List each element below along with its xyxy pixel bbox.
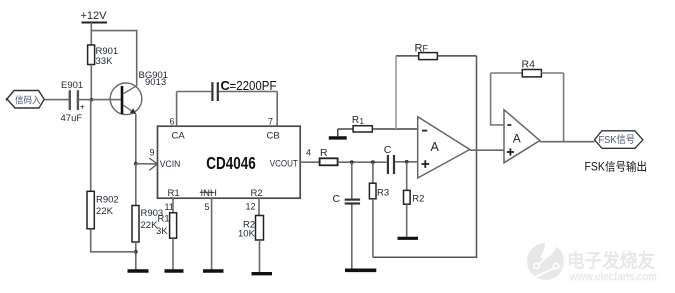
wire op2 output	[540, 141, 595, 143]
wire VCOUT pin4	[300, 161, 319, 163]
svg-text:CB: CB	[267, 131, 280, 142]
ground INH	[203, 269, 224, 272]
node R2 bias	[405, 160, 409, 164]
wire op1 output	[470, 149, 504, 151]
svg-text:R1: R1	[168, 188, 180, 199]
node base	[90, 98, 94, 102]
wire emitter to R903	[135, 164, 137, 206]
wire R4 left to inverting input	[491, 73, 504, 125]
power +12V	[81, 10, 108, 23]
svg-text:12: 12	[246, 201, 256, 211]
wire emitter down	[135, 114, 137, 164]
resistor R1 input	[338, 115, 418, 132]
svg-text:4: 4	[306, 148, 311, 158]
ground R2	[252, 272, 273, 275]
wire R2 bias to ground	[406, 204, 408, 237]
svg-text:R902: R902	[96, 195, 119, 206]
resistor RF	[396, 42, 477, 59]
ground emitter	[128, 269, 149, 273]
ground R1	[165, 269, 184, 272]
svg-text:R2: R2	[412, 193, 424, 204]
wire +12V to R901	[90, 23, 92, 46]
ground shunt C	[345, 268, 376, 272]
wire R3 to feedback loop	[372, 199, 374, 257]
wire R4 right to output	[563, 73, 565, 142]
svg-text:E901: E901	[61, 80, 83, 91]
svg-text:R2: R2	[251, 188, 263, 199]
wire pin6 to capacitor C	[177, 91, 212, 93]
resistor R902	[87, 191, 119, 229]
node R902 return	[134, 250, 138, 254]
svg-text:www.elecfans.com: www.elecfans.com	[569, 270, 657, 284]
svg-text:VCOUT: VCOUT	[270, 159, 298, 170]
wire base to R902	[90, 100, 92, 192]
pin 11	[165, 198, 174, 213]
resistor R2 bias	[404, 162, 425, 205]
svg-text:9: 9	[150, 148, 155, 158]
resistor R1 3K	[156, 213, 177, 239]
svg-text:6: 6	[170, 117, 175, 127]
pin 7	[268, 92, 277, 127]
wire +12V rail to collector	[91, 31, 136, 86]
capacitor C series	[384, 144, 394, 174]
transistor BG901 9013	[110, 70, 168, 115]
svg-text:33K: 33K	[96, 56, 114, 67]
svg-text:FSK信号: FSK信号	[599, 134, 636, 146]
wire E901 to node	[79, 99, 91, 101]
svg-text:VCIN: VCIN	[160, 159, 181, 170]
svg-text:9013: 9013	[145, 77, 166, 88]
wire R1 to ground	[172, 238, 174, 269]
wire feedback loop bottom	[373, 150, 477, 257]
wire node to base	[91, 99, 120, 101]
node R3	[371, 160, 375, 164]
svg-text:1: 1	[360, 117, 365, 126]
input port 信码入	[6, 91, 44, 109]
svg-text:+12V: +12V	[81, 10, 108, 22]
wire shunt C to ground	[351, 205, 353, 269]
svg-text:R3: R3	[377, 187, 389, 198]
svg-text:47uF: 47uF	[61, 113, 83, 124]
svg-text:+: +	[80, 102, 85, 112]
ground R1 input	[329, 136, 347, 139]
wire R1 stub to ground	[337, 129, 339, 136]
svg-text:5: 5	[205, 202, 210, 212]
svg-text:F: F	[423, 43, 429, 53]
wire R to series C	[338, 161, 387, 163]
svg-text:R4: R4	[522, 58, 536, 70]
wire R901 to base node	[90, 65, 92, 101]
wire capacitor C to pin7	[219, 91, 277, 93]
svg-text:信码入: 信码入	[15, 94, 41, 106]
capacitor C shunt	[333, 162, 361, 205]
capacitor C 2200PF	[212, 78, 276, 101]
resistor R4	[491, 58, 564, 77]
ground R2 bias	[398, 237, 419, 240]
node shunt C	[350, 160, 354, 164]
svg-text:R: R	[352, 115, 359, 126]
svg-text:INH: INH	[201, 188, 218, 199]
resistor R901	[88, 45, 119, 67]
svg-text:3K: 3K	[156, 226, 168, 237]
resistor R3	[369, 162, 389, 199]
svg-text:C: C	[384, 144, 392, 156]
node emitter VCIN tap	[134, 162, 138, 166]
svg-text:22K: 22K	[96, 206, 114, 217]
svg-text:CA: CA	[172, 131, 186, 142]
svg-text:FSK信号输出: FSK信号输出	[585, 159, 648, 173]
wire VCIN arrow	[136, 158, 158, 170]
op-amp U1 A	[418, 117, 470, 178]
svg-text:A: A	[513, 132, 521, 146]
wire RF right to output	[476, 56, 478, 150]
resistor R	[320, 147, 338, 165]
svg-text:A: A	[431, 140, 440, 154]
wire R902 bottom return	[91, 229, 136, 252]
pin 6	[170, 92, 177, 127]
watermark logo circle	[527, 236, 564, 280]
pin 5	[205, 198, 212, 269]
svg-text:10K: 10K	[238, 229, 256, 240]
resistor R903	[132, 206, 163, 243]
wire series C to op-amp	[395, 161, 418, 163]
capacitor E901 47uF	[61, 80, 85, 124]
resistor R2 10K	[238, 216, 264, 241]
svg-text:C: C	[333, 193, 341, 205]
wire input to E901	[44, 99, 68, 101]
svg-text:R1: R1	[158, 214, 170, 225]
svg-text:CD4046: CD4046	[206, 153, 256, 173]
pin 12	[246, 198, 260, 215]
svg-text:R: R	[320, 147, 328, 159]
IC U1 CD4046	[158, 126, 301, 199]
wire RF left to inverting input	[395, 56, 397, 129]
wire R2 to ground	[259, 240, 261, 273]
op-amp U2 A	[504, 110, 540, 163]
svg-text:7: 7	[268, 117, 273, 127]
output port FSK信号	[595, 131, 643, 149]
wire R903 to ground	[135, 242, 137, 270]
